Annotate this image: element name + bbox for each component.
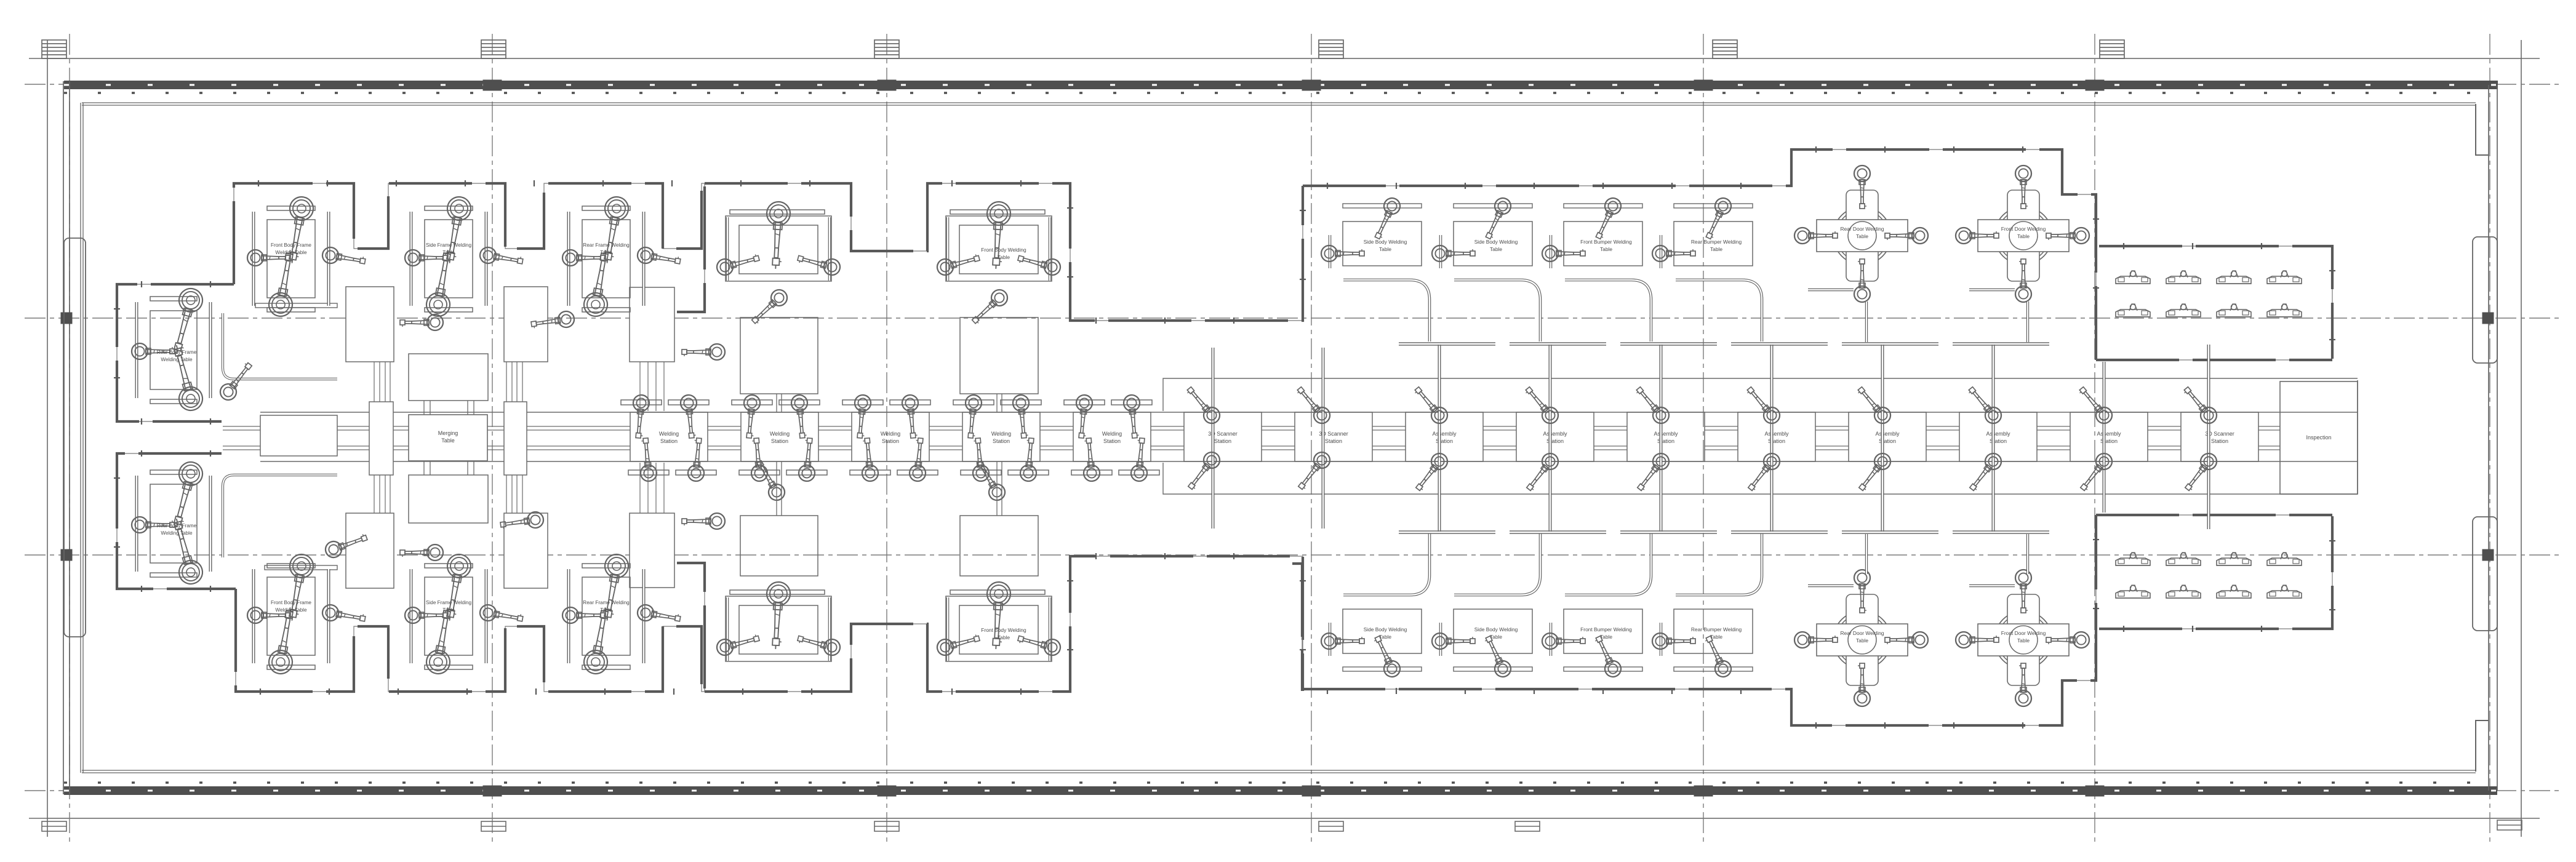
- elbow pipe upper: [223, 313, 337, 379]
- side body welding table lower 2: [1432, 609, 1532, 679]
- svg-text:Table: Table: [1600, 634, 1612, 640]
- svg-text:Table: Table: [1490, 246, 1502, 252]
- station labels: [659, 431, 2234, 444]
- front body welding cell lower B: [935, 581, 1062, 661]
- svg-text:Welding Table: Welding Table: [275, 607, 307, 613]
- svg-text:Table: Table: [600, 607, 612, 613]
- scanner station 2 robots: [1293, 383, 1333, 493]
- column marker ladders top: [42, 40, 2124, 58]
- svg-text:Table: Table: [1379, 634, 1391, 640]
- svg-text:Assembly: Assembly: [1543, 431, 1567, 437]
- zone2 buffer squares lower: [740, 516, 1038, 576]
- elbow pipe lower: [223, 475, 337, 557]
- svg-text:Rear Door Welding: Rear Door Welding: [1840, 226, 1884, 232]
- wall top: [64, 85, 2498, 93]
- svg-text:Side Body Welding: Side Body Welding: [1474, 626, 1518, 633]
- rack lower 2: [504, 513, 548, 588]
- svg-text:Rear Door Welding: Rear Door Welding: [1840, 630, 1884, 636]
- rack upper 3: [630, 287, 674, 362]
- rear body frame welding cell upper: [132, 286, 210, 413]
- feeder robots lower row: [400, 511, 725, 561]
- fence lower zone3 left step: [1292, 564, 1302, 691]
- svg-text:Rear Body Frame: Rear Body Frame: [157, 523, 197, 529]
- assembly station poles and robots: [1410, 345, 2004, 532]
- svg-text:Merging: Merging: [438, 430, 458, 436]
- side body welding table upper 1: [1321, 196, 1422, 268]
- svg-text:Table: Table: [442, 250, 455, 255]
- front bumper welding table upper: [1542, 196, 1642, 268]
- front body welding cell upper A: [715, 201, 842, 281]
- svg-text:Welding: Welding: [770, 431, 790, 437]
- rack lower 3: [630, 513, 674, 588]
- column marker ladders bottom: [42, 820, 2522, 831]
- svg-text:Station: Station: [1325, 438, 1342, 444]
- merging table: [409, 415, 487, 461]
- svg-text:Assembly: Assembly: [1764, 431, 1789, 437]
- infeed track bar lower: [265, 565, 337, 570]
- assembly station 8 robots: [2075, 383, 2115, 494]
- svg-text:Station: Station: [771, 438, 788, 444]
- svg-text:Station: Station: [1214, 438, 1231, 444]
- front body frame welding cell upper: [247, 195, 366, 318]
- svg-text:Station: Station: [882, 438, 899, 444]
- rear bumper welding table upper: [1652, 196, 1753, 268]
- svg-text:Side Body Welding: Side Body Welding: [1474, 239, 1518, 245]
- wall bottom: [64, 783, 2497, 791]
- rack upper 1: [346, 287, 394, 362]
- side frame welding cell upper: [405, 195, 524, 318]
- merging left lift: [369, 402, 393, 475]
- riser lines rack3: [640, 362, 664, 513]
- svg-text:Welding: Welding: [881, 431, 900, 437]
- J pipes upper: [1343, 280, 1762, 341]
- rack upper 2: [504, 287, 548, 362]
- fence lower zone3: [1302, 515, 2096, 725]
- svg-text:Side Body Welding: Side Body Welding: [1364, 239, 1407, 245]
- svg-text:Table: Table: [1600, 246, 1612, 252]
- wall column blocks top: [483, 80, 2104, 90]
- fence desk pen top: [2099, 246, 2332, 359]
- svg-text:Assembly: Assembly: [1986, 431, 2010, 437]
- fence upper zone2: [705, 183, 1303, 321]
- scanner station 3 robots: [2180, 383, 2220, 494]
- infeed track bar upper: [255, 303, 337, 308]
- scanner station 2 pole: [1322, 348, 1325, 529]
- svg-text:Assembly: Assembly: [1654, 431, 1678, 437]
- belt infeed box: [260, 415, 337, 456]
- belt feed robots left: [0, 0, 1, 1]
- conveyor top line: [260, 412, 2358, 413]
- rear door welding cell lower: [1794, 534, 1928, 706]
- merging right lift: [504, 402, 527, 475]
- front body welding cell upper B: [935, 201, 1062, 281]
- riser lines right lift: [506, 362, 522, 514]
- svg-text:Station: Station: [993, 438, 1010, 444]
- svg-text:Welding Table: Welding Table: [161, 357, 193, 362]
- conveyor right end: [2357, 380, 2358, 494]
- door pocket right upper: [2473, 237, 2497, 363]
- conveyor rail segments: [223, 426, 2280, 450]
- svg-text:Table: Table: [1710, 246, 1722, 252]
- fence tick marks: [114, 146, 2335, 728]
- front door welding cell lower: [1956, 534, 2089, 706]
- svg-text:Rear Frame Welding: Rear Frame Welding: [583, 242, 630, 248]
- svg-text:Table: Table: [1379, 246, 1391, 252]
- svg-text:Table: Table: [998, 634, 1010, 641]
- wall column blocks sides: [61, 313, 2494, 561]
- inspection enclosure: [2280, 381, 2358, 494]
- svg-text:Table: Table: [2017, 233, 2030, 239]
- elbow pipe robots: [217, 359, 369, 560]
- J pipes lower: [1343, 533, 1762, 595]
- rear body frame welding cell lower: [132, 460, 210, 587]
- svg-text:Table: Table: [1856, 233, 1868, 239]
- rear bumper welding table lower: [1652, 609, 1753, 679]
- svg-text:Table: Table: [998, 254, 1010, 260]
- svg-text:Welding: Welding: [659, 431, 679, 437]
- svg-text:Front Body Welding: Front Body Welding: [981, 247, 1026, 253]
- svg-text:Inspection: Inspection: [2306, 434, 2331, 441]
- svg-text:Table: Table: [600, 250, 612, 255]
- merging upper buffer: [409, 354, 488, 401]
- conveyor lower outline: [1163, 463, 2358, 494]
- svg-text:Table: Table: [441, 437, 455, 444]
- merging table label: [438, 430, 458, 444]
- inner wall right top jog: [2476, 104, 2489, 155]
- merging connectors: [424, 401, 474, 475]
- front body frame welding cell lower: [247, 553, 366, 676]
- station boxes: [630, 412, 2258, 461]
- svg-text:Welding: Welding: [991, 431, 1011, 437]
- wall left: [63, 81, 70, 794]
- svg-text:Front Bumper Welding: Front Bumper Welding: [1580, 239, 1632, 245]
- zone2 square robots lower: [752, 458, 1008, 503]
- fence upper zone3: [1303, 150, 2096, 360]
- svg-text:Rear Bumper Welding: Rear Bumper Welding: [1691, 239, 1742, 245]
- svg-text:Side Frame Welding: Side Frame Welding: [426, 242, 471, 248]
- T bars upper: [1399, 343, 2049, 345]
- fence left cell lower: [117, 453, 236, 589]
- svg-text:Welding: Welding: [1102, 431, 1122, 437]
- rear frame welding cell upper: [562, 195, 681, 318]
- svg-text:Assembly: Assembly: [2097, 431, 2121, 437]
- svg-text:Table: Table: [1856, 637, 1868, 644]
- door pocket left tall: [64, 238, 86, 637]
- conveyor upper outline: [1163, 378, 2358, 411]
- door pocket right lower: [2473, 517, 2497, 631]
- wall right: [2489, 85, 2497, 791]
- svg-text:Front Body Welding: Front Body Welding: [981, 627, 1026, 633]
- inner wall right bottom jog: [2476, 720, 2489, 772]
- rear frame welding cell lower: [562, 553, 681, 676]
- svg-text:Welding Table: Welding Table: [275, 250, 307, 255]
- svg-text:Table: Table: [442, 607, 455, 613]
- welding station robots: [621, 394, 1159, 482]
- assembly station 8 pole: [2103, 362, 2106, 513]
- fence desk pen top bottom edge: [2096, 359, 2332, 361]
- merging lower buffer: [409, 475, 488, 523]
- zone2 square robots upper: [748, 287, 1010, 328]
- riser lines left lift: [374, 362, 390, 514]
- conveyor bottom line: [260, 461, 2358, 462]
- side frame welding cell lower: [405, 553, 524, 676]
- svg-text:Front Body Frame: Front Body Frame: [271, 242, 311, 248]
- svg-text:Assembly: Assembly: [1432, 431, 1457, 437]
- svg-text:Table: Table: [2017, 637, 2030, 644]
- inner wall top: [82, 103, 2476, 105]
- svg-text:Welding Table: Welding Table: [161, 530, 193, 536]
- svg-text:Front Door Welding: Front Door Welding: [2001, 226, 2046, 232]
- scanner station 1 pole: [1212, 348, 1215, 529]
- inner wall left: [81, 103, 83, 773]
- front door welding cell upper: [1956, 166, 2089, 342]
- scanner station 1 robots: [1183, 383, 1223, 493]
- svg-text:Side Frame Welding: Side Frame Welding: [426, 600, 471, 605]
- svg-text:Side Body Welding: Side Body Welding: [1364, 626, 1407, 633]
- svg-text:Station: Station: [1103, 438, 1121, 444]
- fence lower zone1: [236, 563, 705, 692]
- inner wall bottom: [82, 770, 2476, 773]
- front body welding cell lower A: [715, 581, 842, 661]
- rack lower 1: [346, 513, 394, 588]
- svg-text:Rear Bumper Welding: Rear Bumper Welding: [1691, 626, 1742, 633]
- scanner station 3 pole: [2207, 345, 2210, 529]
- desk cluster lower: [2116, 553, 2302, 598]
- svg-text:Rear Frame Welding: Rear Frame Welding: [583, 600, 630, 605]
- zone2 buffer squares upper: [740, 317, 1038, 394]
- fence desk pen bottom top edge: [2096, 514, 2332, 516]
- svg-text:Station: Station: [2211, 438, 2228, 444]
- svg-text:Station: Station: [660, 438, 678, 444]
- side body welding table upper 2: [1432, 196, 1532, 268]
- rear door welding cell upper: [1794, 166, 1928, 342]
- fence desk pen bottom: [2099, 516, 2332, 629]
- T bars lower: [1399, 531, 2049, 533]
- svg-text:Rear Body Frame: Rear Body Frame: [157, 349, 197, 355]
- fence left cell upper: [117, 284, 234, 421]
- zone2 stems: [777, 394, 1002, 516]
- svg-text:Front Bumper Welding: Front Bumper Welding: [1580, 626, 1632, 633]
- fence upper zone1: [234, 183, 705, 312]
- svg-text:Front Body Frame: Front Body Frame: [271, 600, 311, 605]
- svg-text:Front Door Welding: Front Door Welding: [2001, 630, 2046, 636]
- fence lower zone2: [705, 556, 1303, 692]
- wall column blocks bottom: [483, 786, 2104, 796]
- desk cluster upper: [2116, 271, 2302, 317]
- svg-text:Table: Table: [1710, 634, 1722, 640]
- side body welding table lower 1: [1321, 609, 1422, 679]
- feeder robots upper row: [400, 310, 725, 360]
- svg-text:Table: Table: [1490, 634, 1502, 640]
- front bumper welding table lower: [1542, 609, 1642, 679]
- svg-text:Assembly: Assembly: [1875, 431, 1900, 437]
